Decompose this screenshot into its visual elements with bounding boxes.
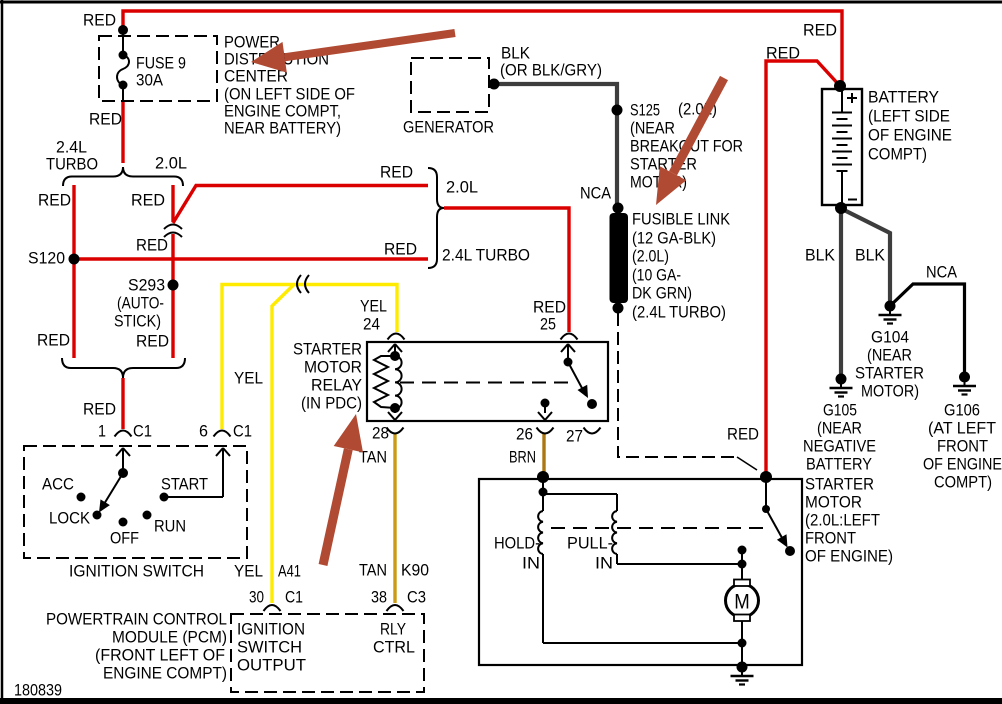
svg-text:MOTOR: MOTOR — [805, 493, 862, 512]
svg-text:BATTERY: BATTERY — [868, 88, 939, 107]
svg-text:COMPT): COMPT) — [868, 145, 927, 164]
svg-text:(FRONT LEFT OF: (FRONT LEFT OF — [95, 646, 225, 665]
svg-text:(IN PDC): (IN PDC) — [301, 394, 362, 413]
svg-text:(NEAR: (NEAR — [817, 419, 862, 438]
svg-text:RED: RED — [37, 331, 70, 350]
svg-text:K90: K90 — [401, 561, 429, 580]
svg-text:CTRL: CTRL — [373, 638, 415, 657]
svg-text:YEL: YEL — [234, 369, 263, 388]
svg-text:FRONT: FRONT — [937, 437, 988, 456]
svg-text:RUN: RUN — [154, 517, 186, 536]
svg-text:YEL: YEL — [234, 562, 263, 581]
svg-text:(10 GA-: (10 GA- — [632, 266, 681, 285]
svg-text:OF ENGINE: OF ENGINE — [868, 126, 952, 145]
svg-text:NCA: NCA — [926, 263, 958, 282]
svg-text:(2.0L): (2.0L) — [632, 247, 669, 266]
svg-text:6: 6 — [199, 422, 208, 441]
svg-text:ACC: ACC — [42, 475, 74, 494]
svg-text:RED: RED — [131, 191, 165, 210]
svg-text:IGNITION SWITCH: IGNITION SWITCH — [69, 562, 204, 581]
svg-text:(LEFT SIDE: (LEFT SIDE — [868, 107, 950, 126]
svg-text:IN: IN — [595, 554, 613, 573]
svg-text:(NEAR: (NEAR — [630, 119, 675, 138]
svg-text:GENERATOR: GENERATOR — [403, 118, 494, 137]
svg-text:C3: C3 — [407, 588, 426, 607]
svg-text:30A: 30A — [136, 71, 164, 90]
svg-text:2.0L: 2.0L — [446, 178, 478, 197]
svg-text:HOLD-: HOLD- — [494, 534, 540, 553]
svg-text:24: 24 — [363, 315, 380, 334]
svg-text:BLK: BLK — [855, 246, 886, 265]
svg-text:RED: RED — [38, 191, 71, 210]
svg-text:(AT LEFT: (AT LEFT — [928, 419, 996, 438]
svg-text:38: 38 — [371, 588, 387, 607]
svg-text:(NEAR: (NEAR — [867, 346, 912, 365]
svg-text:RED: RED — [136, 236, 168, 255]
svg-text:BLK: BLK — [805, 246, 836, 265]
svg-text:S120: S120 — [28, 249, 65, 268]
svg-text:C1: C1 — [285, 588, 303, 607]
svg-text:30: 30 — [249, 588, 264, 607]
svg-text:TURBO: TURBO — [46, 155, 98, 174]
svg-text:NCA: NCA — [580, 184, 612, 203]
svg-text:S293: S293 — [128, 276, 165, 295]
svg-text:M: M — [734, 591, 750, 614]
svg-text:PULL-: PULL- — [567, 534, 613, 553]
svg-text:SWITCH: SWITCH — [237, 638, 302, 657]
svg-text:G106: G106 — [944, 401, 980, 420]
svg-text:OUTPUT: OUTPUT — [237, 656, 306, 675]
svg-text:FUSIBLE LINK: FUSIBLE LINK — [632, 210, 731, 229]
svg-text:MOTOR: MOTOR — [304, 358, 362, 377]
svg-text:POWERTRAIN CONTROL: POWERTRAIN CONTROL — [46, 610, 227, 629]
svg-text:IGNITION: IGNITION — [237, 620, 305, 639]
svg-text:ENGINE COMPT): ENGINE COMPT) — [103, 664, 227, 683]
svg-text:DK GRN): DK GRN) — [632, 284, 692, 303]
svg-text:S125: S125 — [630, 101, 660, 120]
svg-text:G105: G105 — [823, 401, 857, 420]
svg-text:STICK): STICK) — [114, 312, 161, 331]
svg-text:28: 28 — [372, 424, 389, 443]
svg-text:RED: RED — [766, 44, 800, 63]
svg-text:MODULE (PCM): MODULE (PCM) — [112, 628, 227, 647]
svg-text:27: 27 — [566, 427, 583, 446]
svg-text:180839: 180839 — [14, 681, 62, 700]
svg-text:RELAY: RELAY — [311, 376, 362, 395]
svg-text:BRN: BRN — [509, 448, 536, 467]
svg-text:25: 25 — [540, 315, 556, 334]
svg-text:BATTERY: BATTERY — [806, 455, 872, 474]
svg-text:RED: RED — [380, 163, 413, 182]
svg-text:G104: G104 — [871, 328, 909, 347]
svg-text:RED: RED — [384, 240, 417, 259]
svg-text:YEL: YEL — [360, 297, 387, 316]
svg-text:TAN: TAN — [359, 448, 387, 467]
svg-text:IN: IN — [522, 554, 540, 573]
svg-text:26: 26 — [516, 425, 533, 444]
svg-text:LOCK: LOCK — [49, 509, 91, 528]
svg-text:COMPT): COMPT) — [934, 473, 992, 492]
svg-text:STARTER: STARTER — [293, 340, 362, 359]
svg-text:C1: C1 — [133, 422, 152, 441]
svg-text:(OR BLK/GRY): (OR BLK/GRY) — [500, 61, 602, 80]
svg-text:C1: C1 — [233, 422, 252, 441]
svg-text:RED: RED — [727, 425, 759, 444]
svg-text:RED: RED — [89, 110, 122, 129]
svg-text:TAN: TAN — [359, 561, 387, 580]
svg-text:RED: RED — [83, 400, 116, 419]
svg-text:(2.0L:LEFT: (2.0L:LEFT — [805, 511, 880, 530]
svg-text:2.4L TURBO: 2.4L TURBO — [442, 246, 530, 265]
svg-text:STARTER: STARTER — [805, 475, 874, 494]
svg-text:(2.4L TURBO): (2.4L TURBO) — [632, 303, 726, 322]
svg-text:2.0L: 2.0L — [155, 154, 187, 173]
svg-text:1: 1 — [98, 422, 106, 441]
svg-text:RED: RED — [83, 11, 116, 30]
svg-text:(AUTO-: (AUTO- — [117, 294, 164, 313]
svg-text:NEAR BATTERY): NEAR BATTERY) — [224, 119, 341, 138]
svg-text:RED: RED — [136, 332, 169, 351]
svg-text:NEGATIVE: NEGATIVE — [803, 437, 876, 456]
svg-text:OFF: OFF — [110, 529, 139, 548]
svg-text:A41: A41 — [278, 562, 301, 581]
svg-text:OF ENGINE: OF ENGINE — [923, 455, 1002, 474]
svg-text:RLY: RLY — [380, 620, 406, 639]
svg-text:(12 GA-BLK): (12 GA-BLK) — [632, 229, 716, 248]
svg-text:OF ENGINE): OF ENGINE) — [805, 547, 893, 566]
svg-text:START: START — [161, 475, 208, 494]
svg-text:RED: RED — [803, 21, 837, 40]
svg-text:MOTOR): MOTOR) — [861, 382, 919, 401]
svg-text:FRONT: FRONT — [805, 529, 856, 548]
svg-text:STARTER: STARTER — [855, 364, 924, 383]
